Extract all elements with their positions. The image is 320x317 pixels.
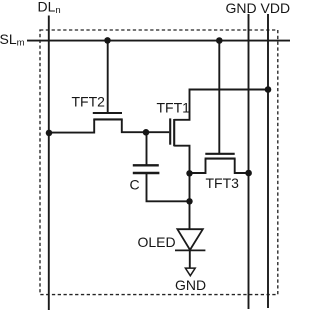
wire: scan line SLm (horizontal) bbox=[27, 40, 290, 42]
wire: TFT2 drain to node A bbox=[122, 119, 169, 132]
wire: TFT1 drain to VDD bbox=[174, 90, 268, 120]
wire: VDD supply line (vertical) bbox=[267, 14, 269, 308]
wire: TFT2 source step bbox=[49, 119, 94, 132]
junction: TFT3 drain on GND line bbox=[245, 170, 252, 177]
wire: OLED cathode to ground bbox=[189, 250, 191, 267]
svg-text:DLn: DLn bbox=[38, 0, 61, 16]
junction: TFT3 gate on SLm bbox=[216, 37, 223, 44]
wire: TFT3 source step to node B bbox=[190, 159, 206, 173]
junction: capacitor bottom on OLED branch bbox=[186, 198, 192, 204]
junction: TFT1 drain on VDD bbox=[265, 86, 272, 93]
junction: node A (TFT2 drain / TFT1 gate / C top) bbox=[143, 129, 150, 136]
svg-text:GND: GND bbox=[175, 277, 206, 293]
svg-text:SLm: SLm bbox=[0, 31, 25, 49]
svg-text:TFT1: TFT1 bbox=[157, 100, 191, 116]
wire: capacitor bottom to node B bbox=[147, 173, 190, 201]
pixel cell boundary (dashed) bbox=[40, 30, 278, 295]
wire: TFT2 gate from SLm bbox=[107, 41, 109, 113]
wire: data line DLn (vertical) bbox=[48, 16, 50, 311]
junction: TFT2 gate on SLm bbox=[104, 37, 111, 44]
svg-text:TFT2: TFT2 bbox=[72, 93, 106, 109]
svg-text:TFT3: TFT3 bbox=[206, 175, 240, 191]
wire: node A to capacitor top bbox=[146, 132, 148, 165]
junction: node B (TFT1 source / TFT3 source) bbox=[186, 170, 192, 176]
svg-text:VDD: VDD bbox=[261, 0, 291, 16]
wire: TFT3 gate from SLm bbox=[218, 41, 220, 154]
transistor TFT1 bbox=[170, 118, 174, 146]
svg-text:OLED: OLED bbox=[138, 234, 176, 250]
junction: TFT2 source on DLn bbox=[46, 130, 53, 137]
transistor TFT3 bbox=[205, 154, 236, 159]
ground symbol (open arrow) bbox=[185, 268, 195, 276]
wire: TFT3 drain step to GND line bbox=[235, 159, 249, 173]
transistor TFT2 bbox=[93, 113, 123, 119]
svg-text:GND: GND bbox=[226, 0, 257, 16]
svg-text:C: C bbox=[130, 177, 140, 193]
capacitor C bbox=[133, 165, 160, 173]
wire: TFT1 source down to OLED anode bbox=[174, 146, 189, 230]
diode OLED bbox=[175, 229, 205, 250]
wire: GND supply line (vertical) bbox=[248, 14, 250, 309]
